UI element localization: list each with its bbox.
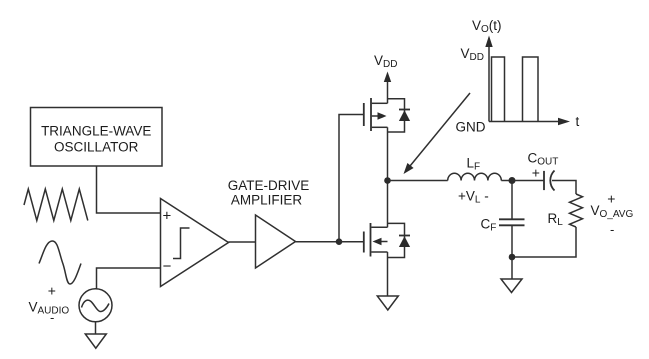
transistor Q2 (low-side MOSFET)	[364, 223, 388, 257]
ground (Q2 source)	[377, 296, 398, 310]
svg-text:GATE-DRIVE: GATE-DRIVE	[228, 178, 310, 193]
pulse 1	[492, 57, 505, 122]
label VO_AVG with polarity	[591, 191, 634, 237]
node: CF/RL bottom junction	[509, 254, 516, 261]
svg-text:+: +	[532, 165, 540, 181]
wire: VAUDIO to ground	[95, 322, 97, 334]
wire: COUT to RL top	[552, 181, 576, 195]
svg-text:RL: RL	[548, 211, 564, 228]
svg-text:+: +	[607, 191, 615, 207]
voltage source VAUDIO	[79, 289, 112, 322]
transistor Q1 (high-side MOSFET)	[364, 98, 388, 131]
body diode D2 loop	[388, 223, 405, 257]
wire: CF to bottom node	[511, 225, 513, 257]
svg-text:LF: LF	[467, 156, 481, 173]
body diode D1	[399, 110, 410, 122]
svg-text:-: -	[610, 222, 614, 237]
resistor RL	[570, 194, 583, 227]
svg-text:AMPLIFIER: AMPLIFIER	[231, 193, 303, 208]
wire: Q2 source to ground	[387, 252, 389, 296]
svg-text:−: −	[163, 258, 172, 275]
x-axis	[489, 121, 559, 123]
ground (output filter)	[501, 279, 522, 293]
node: gate junction	[336, 238, 343, 245]
ground (VAUDIO)	[85, 334, 106, 348]
sine-wave symbol	[39, 241, 81, 284]
svg-text:OSCILLATOR: OSCILLATOR	[54, 140, 139, 155]
svg-text:-: -	[50, 310, 54, 325]
svg-text:+: +	[48, 282, 56, 298]
triangle-wave symbol	[24, 189, 88, 221]
wire: junction to Q2 gate	[339, 241, 363, 243]
wire: node to COUT	[512, 180, 544, 182]
wire: RL bottom to bottom rail	[512, 227, 576, 257]
waveform plot VO(t)	[485, 36, 570, 126]
comparator U1	[161, 199, 229, 287]
wire: output node to inductor	[388, 180, 448, 182]
body diode D2	[399, 236, 410, 248]
capacitor CF	[499, 219, 525, 225]
wire: Q2 drain to output node	[387, 181, 389, 227]
svg-text:VO(t): VO(t)	[472, 18, 502, 35]
svg-text:+: +	[163, 207, 172, 224]
body diode D1 loop	[388, 99, 405, 132]
svg-text:CF: CF	[481, 217, 497, 234]
svg-text:VAUDIO: VAUDIO	[29, 300, 70, 317]
wire: VAUDIO source to comparator - input	[97, 268, 161, 289]
wire: buffer output to gate junction	[296, 241, 340, 243]
svg-text:VDD: VDD	[461, 46, 484, 63]
svg-text:+VL -: +VL -	[458, 189, 489, 206]
svg-text:GND: GND	[456, 119, 486, 134]
capacitor COUT (polarized)	[544, 171, 555, 191]
wire: bottom node to ground	[511, 257, 513, 279]
wire: LF/CF node down to CF	[511, 181, 513, 219]
wire: inductor to LF/CF node	[501, 180, 512, 182]
wire: Q1 source to output node	[387, 127, 389, 180]
gate-drive amplifier buffer U2	[256, 215, 296, 268]
annotation arrow from waveform to output node	[410, 93, 471, 167]
wire: junction up to Q1 gate	[339, 115, 363, 242]
svg-text:t: t	[576, 114, 580, 129]
pulse 2	[523, 57, 539, 122]
svg-text:VDD: VDD	[374, 53, 397, 70]
VDD supply arrow	[384, 72, 391, 83]
wire: Q1 drain to VDD	[387, 80, 389, 103]
label GATE-DRIVE AMPLIFIER	[228, 178, 310, 208]
wire: comparator output to gate-drive amplifier input	[229, 241, 256, 243]
inductor LF	[448, 173, 502, 180]
oscillator block TRIANGLE-WAVE OSCILLATOR	[31, 108, 163, 167]
hysteresis symbol inside comparator	[173, 228, 190, 259]
label VAUDIO with polarity	[29, 282, 70, 325]
svg-text:TRIANGLE-WAVE: TRIANGLE-WAVE	[41, 124, 151, 139]
node: switching output	[384, 177, 391, 184]
node: LF/CF junction	[509, 177, 516, 184]
wire: oscillator output to comparator + input	[97, 166, 161, 213]
label COUT with polarity	[528, 151, 559, 181]
y-axis	[488, 45, 490, 122]
